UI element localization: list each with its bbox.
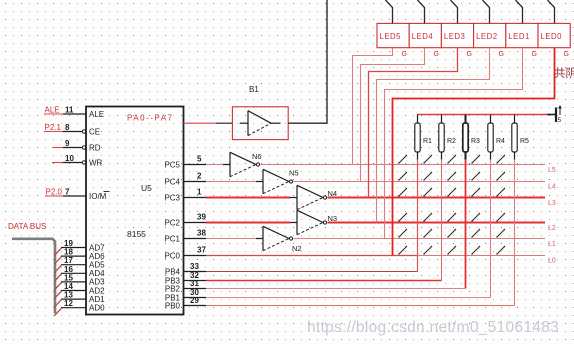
pin PB2 stub (pin 31) xyxy=(184,279,207,289)
wire PC4 to N5 xyxy=(206,181,256,183)
svg-text:G: G xyxy=(434,51,439,58)
svg-text:N2: N2 xyxy=(292,244,302,253)
svg-text:R1: R1 xyxy=(423,138,432,145)
svg-text:L5: L5 xyxy=(548,167,556,174)
wire R2 column xyxy=(441,160,443,281)
wire LED4 anode to top xyxy=(418,0,425,23)
svg-text:PB4: PB4 xyxy=(165,267,181,276)
pin label IO/M xyxy=(89,192,110,201)
svg-text:G: G xyxy=(467,51,472,58)
bus entry AD0 xyxy=(54,308,61,316)
svg-text:37: 37 xyxy=(197,245,206,254)
svg-text:9: 9 xyxy=(65,139,70,148)
pin AD0 (pin 12) xyxy=(61,299,86,308)
pin CE (pin 8) xyxy=(44,123,86,133)
svg-text:AD0: AD0 xyxy=(89,304,105,313)
svg-text:LED0: LED0 xyxy=(541,32,563,41)
svg-text:LED5: LED5 xyxy=(380,32,402,41)
wire PB0 to R5 column xyxy=(206,305,515,307)
pin ALE (pin 11) xyxy=(44,106,86,115)
svg-text:LED1: LED1 xyxy=(508,32,530,41)
wire PC5 to N6 xyxy=(206,164,223,166)
wire R3 column xyxy=(465,160,467,289)
data bus xyxy=(12,239,55,314)
pin PB4 stub (pin 33) xyxy=(184,262,207,272)
wire L5 row xyxy=(261,164,546,166)
wire PC3 to N4 xyxy=(206,197,290,199)
key matrix switches xyxy=(398,155,505,255)
bus entry AD3 xyxy=(54,282,61,290)
LED display LED1 xyxy=(506,23,538,47)
svg-text:R2: R2 xyxy=(447,138,456,145)
svg-text:G: G xyxy=(532,51,537,58)
svg-text:PC1: PC1 xyxy=(164,234,180,243)
wire LED0 G cathode xyxy=(393,48,555,256)
pin PB1 stub (pin 30) xyxy=(184,288,207,298)
svg-text:PC3: PC3 xyxy=(164,193,180,202)
pin RD (pin 9) xyxy=(52,139,86,149)
inverter N6 xyxy=(223,152,260,176)
wire resistor top rail xyxy=(417,114,547,116)
svg-text:WR: WR xyxy=(89,158,103,167)
svg-text:5: 5 xyxy=(558,117,562,124)
svg-text:33: 33 xyxy=(190,262,199,271)
wire LED1 anode to top xyxy=(516,0,523,23)
resistor R1 xyxy=(415,115,432,160)
pin AD2 (pin 14) xyxy=(61,282,86,291)
LED display LED2 xyxy=(474,23,506,47)
pin PC0 stub (pin 37) xyxy=(184,245,207,255)
svg-text:8: 8 xyxy=(65,123,70,132)
svg-text:PA0--PA7: PA0--PA7 xyxy=(127,114,173,123)
svg-text:R4: R4 xyxy=(496,138,505,145)
svg-text:G: G xyxy=(564,51,569,58)
pin AD3 (pin 15) xyxy=(61,273,86,282)
svg-text:IO/M: IO/M xyxy=(89,192,107,201)
bus entry AD5 xyxy=(54,265,61,273)
IC U5 8155 body xyxy=(86,107,184,315)
wire LED2 anode to top xyxy=(483,0,490,23)
svg-text:R3: R3 xyxy=(471,138,480,145)
svg-text:B1: B1 xyxy=(249,85,259,94)
pin AD5 (pin 17) xyxy=(61,256,86,265)
bus entry AD2 xyxy=(54,291,61,299)
svg-text:LED2: LED2 xyxy=(476,32,498,41)
svg-text:N6: N6 xyxy=(252,152,262,161)
LED display LED5 xyxy=(377,23,409,47)
svg-text:5: 5 xyxy=(197,154,202,163)
svg-text:L0: L0 xyxy=(548,258,556,265)
wire L2 row xyxy=(328,222,546,224)
resistor R2 xyxy=(439,115,456,160)
svg-text:PC2: PC2 xyxy=(164,218,180,227)
wire PA0--PA7 to B1 xyxy=(184,122,233,124)
wire LED3 anode to top xyxy=(451,0,458,23)
wire L3 row xyxy=(328,197,546,199)
wire LED5 anode to top xyxy=(386,0,393,23)
wire R5 column xyxy=(514,160,516,306)
wire LED1 G cathode xyxy=(385,48,523,239)
resistor R4 xyxy=(488,115,505,160)
svg-text:10: 10 xyxy=(65,154,74,163)
wire LED3 G cathode xyxy=(369,48,458,198)
LED display LED3 xyxy=(441,23,473,47)
pin PB0 stub (pin 29) xyxy=(184,296,207,306)
wire LED2 G cathode xyxy=(377,48,490,223)
pin PC5 stub (pin 5) xyxy=(184,154,207,164)
pin PC1 stub (pin 38) xyxy=(184,228,207,238)
svg-text:12: 12 xyxy=(64,299,73,308)
svg-text:8155: 8155 xyxy=(127,229,146,239)
wire PB3 to R2 column xyxy=(206,280,442,282)
pin AD6 (pin 18) xyxy=(61,248,86,257)
resistor R3 xyxy=(463,115,480,160)
inverter N4 xyxy=(290,185,327,209)
svg-text:DATA BUS: DATA BUS xyxy=(8,222,46,231)
svg-text:11: 11 xyxy=(65,106,74,115)
svg-text:L4: L4 xyxy=(548,184,556,191)
svg-text:RD: RD xyxy=(89,143,101,152)
wire L4 row xyxy=(294,181,546,183)
svg-text:R5: R5 xyxy=(520,138,529,145)
bus entry AD4 xyxy=(54,274,61,282)
wire PB2 to R3 column xyxy=(206,288,466,290)
inverter N3 xyxy=(290,210,327,234)
svg-text:39: 39 xyxy=(197,212,206,221)
svg-text:7: 7 xyxy=(65,188,70,197)
svg-text:CE: CE xyxy=(89,127,100,136)
pin PB3 stub (pin 32) xyxy=(184,271,207,281)
svg-text:N5: N5 xyxy=(289,169,299,178)
svg-text:L1: L1 xyxy=(548,241,556,248)
svg-text:PC4: PC4 xyxy=(164,177,180,186)
resistor R5 xyxy=(512,115,529,160)
pin PC3 stub (pin 1) xyxy=(184,187,207,197)
wire LED5 G cathode xyxy=(353,48,393,165)
svg-text:PC0: PC0 xyxy=(164,251,180,260)
svg-text:LED4: LED4 xyxy=(412,32,434,41)
pin AD4 (pin 16) xyxy=(61,265,86,274)
pin WR (pin 10) xyxy=(52,154,86,164)
wire R4 column xyxy=(490,160,492,298)
wire L1 row xyxy=(294,238,546,240)
wire R1 column xyxy=(417,160,419,272)
wire PC1 to N2 xyxy=(206,238,256,240)
svg-text:2: 2 xyxy=(197,171,202,180)
bus entry AD6 xyxy=(54,257,61,265)
wire PB1 to R4 column xyxy=(206,297,491,299)
svg-text:29: 29 xyxy=(190,296,199,305)
svg-text:31: 31 xyxy=(190,279,199,288)
svg-text:L2: L2 xyxy=(548,225,556,232)
pin AD1 (pin 13) xyxy=(61,291,86,300)
power +5V symbol xyxy=(547,105,562,124)
LED display LED4 xyxy=(409,23,441,47)
svg-text:PC5: PC5 xyxy=(164,160,180,169)
inverter N5 xyxy=(256,169,293,193)
svg-text:PB2: PB2 xyxy=(165,284,181,293)
bus entry AD7 xyxy=(54,248,61,256)
wire B1 output xyxy=(288,0,327,123)
svg-text:ALE: ALE xyxy=(89,110,104,119)
wire LED0 anode to top xyxy=(548,0,555,23)
pin PC4 stub (pin 2) xyxy=(184,171,207,181)
svg-text:P2.0: P2.0 xyxy=(46,188,63,197)
svg-text:L3: L3 xyxy=(548,200,556,207)
bus entry AD1 xyxy=(54,300,61,308)
wire LED4 G cathode xyxy=(361,48,425,182)
wire PC2 to N3 xyxy=(206,222,290,224)
svg-text:U5: U5 xyxy=(141,183,152,193)
svg-text:1: 1 xyxy=(197,187,202,196)
pin AD7 (pin 19) xyxy=(61,239,86,248)
wire PB4 to R1 column xyxy=(206,271,418,273)
buffer B1 xyxy=(232,107,288,140)
LED display LED0 xyxy=(538,23,570,47)
pin PC2 stub (pin 39) xyxy=(184,212,207,222)
svg-text:38: 38 xyxy=(197,228,206,237)
svg-text:PB0: PB0 xyxy=(165,301,181,310)
svg-text:https://blog.csdn.net/m0_51061: https://blog.csdn.net/m0_51061483 xyxy=(307,319,559,336)
svg-text:P2.1: P2.1 xyxy=(45,123,62,132)
inverter N2 xyxy=(256,226,293,250)
svg-text:G: G xyxy=(499,51,504,58)
svg-text:ALE: ALE xyxy=(45,106,60,115)
pin IO/M (pin 7) xyxy=(45,188,86,197)
svg-text:LED3: LED3 xyxy=(444,32,466,41)
svg-text:G: G xyxy=(402,51,407,58)
svg-text:共阴: 共阴 xyxy=(554,67,574,80)
svg-text:N3: N3 xyxy=(328,214,338,223)
wire L0 row xyxy=(206,255,418,257)
